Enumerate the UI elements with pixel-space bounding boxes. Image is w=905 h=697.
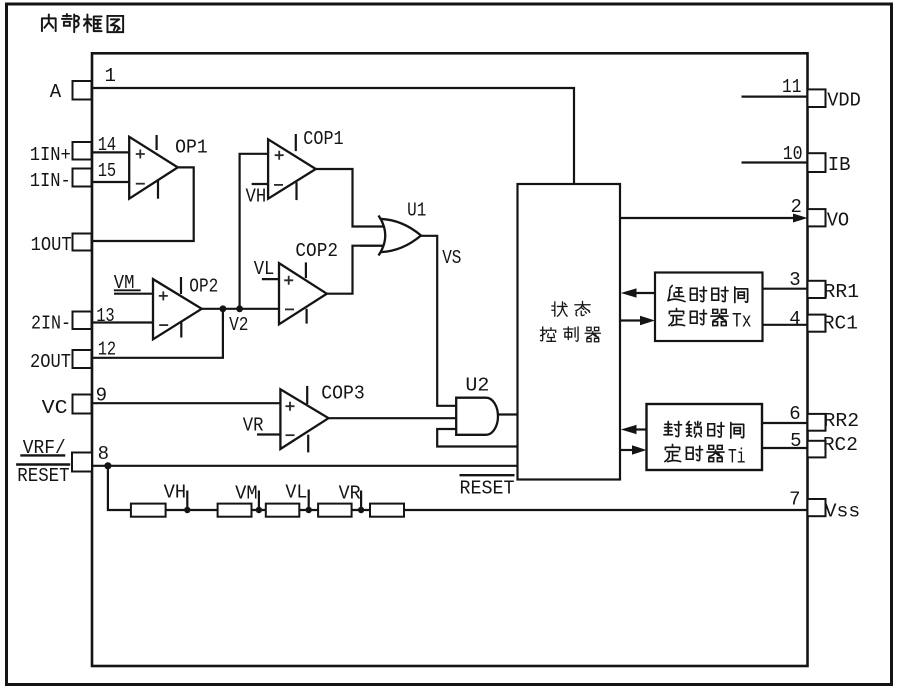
svg-text:VO: VO [827, 210, 850, 232]
svg-text:VM: VM [114, 272, 135, 294]
svg-text:RR1: RR1 [824, 281, 860, 303]
svg-text:RESET: RESET [460, 478, 515, 500]
svg-text:Ti: Ti [728, 447, 746, 470]
svg-text:1OUT: 1OUT [31, 234, 72, 256]
svg-text:OP1: OP1 [175, 137, 208, 159]
svg-text:OP2: OP2 [189, 276, 218, 298]
svg-text:A: A [50, 81, 62, 103]
svg-text:RR2: RR2 [824, 410, 860, 432]
svg-text:VH: VH [246, 186, 267, 208]
svg-text:VM: VM [235, 483, 258, 505]
svg-text:7: 7 [789, 489, 800, 511]
svg-text:IB: IB [828, 154, 851, 176]
svg-text:5: 5 [790, 430, 801, 452]
svg-text:U2: U2 [465, 375, 489, 397]
svg-text:12: 12 [98, 339, 117, 361]
svg-text:3: 3 [789, 269, 800, 291]
svg-text:VH: VH [164, 482, 187, 504]
svg-text:VL: VL [285, 482, 307, 504]
svg-text:1: 1 [105, 65, 116, 87]
svg-text:RC2: RC2 [823, 434, 858, 456]
svg-text:VS: VS [442, 247, 461, 269]
svg-text:2: 2 [791, 196, 802, 218]
svg-text:11: 11 [782, 76, 801, 98]
svg-text:RC1: RC1 [823, 313, 858, 335]
svg-text:COP2: COP2 [295, 240, 338, 262]
svg-text:RESET: RESET [17, 465, 69, 487]
svg-text:VC: VC [42, 397, 68, 419]
svg-text:Vss: Vss [825, 501, 861, 523]
svg-text:9: 9 [96, 385, 107, 407]
svg-text:6: 6 [789, 403, 800, 425]
svg-text:VR: VR [243, 415, 264, 437]
svg-text:4: 4 [789, 308, 800, 330]
svg-text:VL: VL [254, 258, 275, 280]
svg-text:COP3: COP3 [321, 383, 365, 405]
svg-text:2IN-: 2IN- [31, 313, 71, 335]
svg-text:COP1: COP1 [303, 128, 343, 150]
svg-text:U1: U1 [407, 200, 426, 222]
svg-text:VDD: VDD [827, 90, 861, 112]
svg-text:V2: V2 [229, 314, 248, 336]
svg-text:14: 14 [98, 134, 117, 156]
svg-text:1IN+: 1IN+ [30, 144, 71, 166]
svg-text:Tx: Tx [732, 311, 752, 334]
svg-text:15: 15 [98, 160, 117, 182]
svg-text:13: 13 [96, 305, 115, 327]
svg-text:1IN-: 1IN- [30, 170, 71, 192]
svg-text:VR: VR [339, 483, 361, 505]
svg-text:2OUT: 2OUT [30, 351, 71, 373]
svg-text:8: 8 [98, 443, 109, 465]
svg-text:10: 10 [783, 143, 803, 165]
